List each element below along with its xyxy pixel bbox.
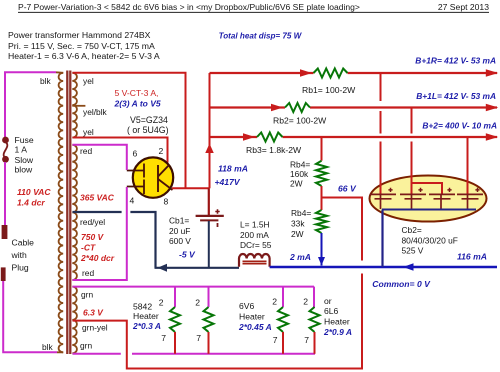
- resistor Rb4 160k: [316, 161, 327, 186]
- svg-text:2: 2: [303, 297, 308, 307]
- wire Rb4b to common: [321, 233, 323, 266]
- svg-text:V5=GZ34: V5=GZ34: [130, 115, 168, 125]
- svg-text:Total heat disp= 75 W: Total heat disp= 75 W: [219, 31, 303, 40]
- svg-text:2*0.3 A: 2*0.3 A: [132, 321, 161, 331]
- svg-text:2*0.45 A: 2*0.45 A: [238, 322, 272, 332]
- svg-text:600 V: 600 V: [169, 236, 191, 246]
- svg-text:6.3 V: 6.3 V: [83, 308, 104, 318]
- svg-text:2(3) A to V5: 2(3) A to V5: [114, 99, 161, 109]
- wire yel top to pin 8 drop: [73, 73, 186, 189]
- tube V5 GZ34 envelope: [133, 157, 173, 197]
- svg-text:Plug: Plug: [12, 263, 29, 273]
- svg-text:Heater: Heater: [133, 311, 159, 321]
- tube cathode K: [158, 165, 173, 193]
- svg-text:Power transformer Hammond 274B: Power transformer Hammond 274BX: [8, 30, 151, 40]
- title underline: [18, 11, 489, 13]
- svg-text:Fuse: Fuse: [15, 135, 34, 145]
- Cb2 common bus: [382, 209, 476, 211]
- svg-text:Slow: Slow: [15, 155, 34, 165]
- svg-text:8: 8: [164, 197, 169, 207]
- svg-text:Cb2=: Cb2=: [402, 225, 422, 235]
- wire Cb1 bottom lead: [208, 221, 210, 268]
- svg-text:B+2= 400 V- 10 mA: B+2= 400 V- 10 mA: [422, 121, 497, 131]
- svg-text:-5 V: -5 V: [179, 250, 196, 260]
- svg-text:5 V-CT-3 A,: 5 V-CT-3 A,: [115, 88, 159, 98]
- svg-text:7: 7: [304, 335, 309, 345]
- common bus: [270, 266, 497, 269]
- wire Cb2 common to bus: [381, 210, 383, 268]
- heater resistor 5842: [174, 287, 176, 307]
- svg-text:blk: blk: [40, 76, 52, 86]
- svg-text:110 VAC: 110 VAC: [17, 187, 51, 197]
- capacitor Cb1: [196, 215, 224, 217]
- svg-text:7: 7: [196, 333, 201, 343]
- Cb2 can ellipse: [370, 176, 487, 222]
- yel/blk center tap stub: [72, 105, 85, 107]
- svg-text:red/yel: red/yel: [80, 217, 105, 227]
- resistor Rb1: [314, 69, 348, 78]
- cap feeds from rails: [380, 73, 382, 194]
- svg-text:P-7 Power-Variation-3 < 5842: P-7 Power-Variation-3 < 5842 dc 6V6 bias…: [18, 2, 360, 12]
- -5V bus: [155, 267, 240, 269]
- svg-text:80/40/30/20 uF: 80/40/30/20 uF: [402, 236, 458, 246]
- svg-text:L= 1.5H: L= 1.5H: [240, 220, 270, 230]
- svg-text:2: 2: [272, 297, 277, 307]
- svg-text:200 mA: 200 mA: [240, 230, 269, 240]
- riser to B+: [209, 73, 211, 188]
- svg-text:yel: yel: [83, 127, 94, 137]
- resistor Rb3: [257, 133, 283, 142]
- svg-text:+417V: +417V: [215, 177, 241, 187]
- svg-text:blk: blk: [42, 342, 54, 352]
- svg-text:Rb3= 1.8k-2W: Rb3= 1.8k-2W: [246, 145, 302, 155]
- wire red/yel CT: [73, 211, 122, 213]
- svg-text:Rb2= 100-2W: Rb2= 100-2W: [273, 116, 327, 126]
- wire pin 8 output: [172, 187, 210, 189]
- svg-text:20 uF: 20 uF: [169, 226, 190, 236]
- svg-text:2: 2: [159, 146, 164, 156]
- svg-text:grn-yel: grn-yel: [82, 323, 108, 333]
- heater resistor 6L6: [313, 287, 315, 308]
- svg-text:750 V: 750 V: [81, 232, 105, 242]
- svg-text:blow: blow: [15, 165, 33, 175]
- svg-text:525 V: 525 V: [402, 246, 424, 256]
- resistor Rb4 33k: [316, 210, 327, 233]
- B+2 rail: [210, 136, 498, 138]
- svg-text:grn: grn: [80, 341, 92, 351]
- svg-text:-CT: -CT: [81, 242, 96, 252]
- cap Cb2 section 3: [429, 193, 455, 195]
- svg-text:Rb1= 100-2W: Rb1= 100-2W: [302, 85, 356, 95]
- svg-text:2: 2: [195, 298, 200, 308]
- svg-text:with: with: [11, 250, 28, 260]
- svg-text:2W: 2W: [291, 229, 304, 239]
- svg-text:Common= 0 V: Common= 0 V: [372, 279, 431, 289]
- transformer 5V secondary winding: [72, 73, 77, 138]
- fuse F1: [4, 142, 8, 158]
- svg-text:Heater: Heater: [324, 316, 350, 326]
- svg-text:2*40 dcr: 2*40 dcr: [80, 253, 115, 263]
- svg-text:grn: grn: [81, 290, 93, 300]
- inductor L1: [239, 254, 270, 267]
- svg-text:365 VAC: 365 VAC: [80, 193, 115, 203]
- cap Cb2 section 2: [400, 193, 426, 195]
- svg-text:6V6: 6V6: [239, 301, 255, 311]
- wire primary top (blk to fuse line): [5, 72, 56, 137]
- wire fuse to plug: [4, 162, 6, 226]
- wire red tap 2 to pin 4: [73, 187, 127, 280]
- svg-text:5842: 5842: [133, 302, 152, 312]
- svg-text:yel/blk: yel/blk: [83, 107, 108, 117]
- cap Cb2 section 1: [370, 193, 396, 195]
- wire yel lower to pin 2: [73, 138, 168, 163]
- svg-text:1.4 dcr: 1.4 dcr: [17, 197, 45, 207]
- svg-text:118 mA: 118 mA: [218, 164, 248, 174]
- svg-text:2 mA: 2 mA: [289, 252, 311, 262]
- svg-text:2*0.9 A: 2*0.9 A: [323, 327, 352, 337]
- B+1L rail: [210, 106, 498, 108]
- svg-text:2W: 2W: [290, 178, 303, 188]
- svg-text:red: red: [80, 146, 92, 156]
- B+1R rail: [210, 72, 498, 74]
- svg-text:7: 7: [273, 335, 278, 345]
- svg-text:Rb4=: Rb4=: [290, 160, 310, 170]
- svg-text:yel: yel: [83, 76, 94, 86]
- svg-text:DCr= 55: DCr= 55: [240, 240, 272, 250]
- svg-text:Cable: Cable: [12, 238, 35, 248]
- svg-text:6: 6: [133, 149, 138, 159]
- plug prong 1: [2, 225, 8, 239]
- svg-text:Rb4=: Rb4=: [291, 208, 311, 218]
- svg-text:B+1R= 412 V- 53 mA: B+1R= 412 V- 53 mA: [415, 56, 496, 66]
- svg-text:Cb1=: Cb1=: [169, 216, 189, 226]
- svg-text:or: or: [324, 296, 332, 306]
- wire plug to primary bottom: [3, 281, 57, 352]
- svg-text:33k: 33k: [291, 219, 305, 229]
- plug prong 2: [1, 267, 6, 281]
- svg-text:6L6: 6L6: [324, 306, 339, 316]
- svg-text:red: red: [82, 268, 94, 278]
- resistor Rb2: [285, 103, 310, 112]
- svg-text:4: 4: [130, 196, 135, 206]
- heater top bus: [73, 286, 315, 288]
- node 66V: [321, 186, 323, 210]
- transformer primary winding: [59, 73, 64, 353]
- wire red tap to pin 6: [73, 145, 127, 170]
- svg-text:( or 5U4G): ( or 5U4G): [127, 125, 169, 135]
- svg-text:Heater-1 = 6.3 V-6 A, heater-2: Heater-1 = 6.3 V-6 A, heater-2= 5 V-3 A: [8, 51, 160, 61]
- svg-text:Heater: Heater: [239, 312, 265, 322]
- heater resistor 6V6: [282, 287, 284, 307]
- cap Cb2 section 4: [457, 193, 483, 195]
- tube anode plate pin 6: [127, 164, 144, 178]
- svg-text:2: 2: [159, 298, 164, 308]
- transformer 6.3V secondary winding: [72, 287, 77, 354]
- heater bottom bus: [73, 353, 316, 355]
- svg-text:66 V: 66 V: [338, 184, 357, 194]
- svg-text:Pri. = 115 V, Sec. = 750 V-CT,: Pri. = 115 V, Sec. = 750 V-CT, 175 mA: [8, 41, 155, 51]
- transformer HV secondary winding: [72, 145, 77, 280]
- svg-text:B+1L= 412 V- 53 mA: B+1L= 412 V- 53 mA: [416, 91, 496, 101]
- wire 66V to heater CT: [73, 198, 363, 369]
- svg-text:1 A: 1 A: [15, 145, 28, 155]
- svg-text:27 Sept 2013: 27 Sept 2013: [438, 2, 489, 12]
- svg-text:7: 7: [161, 333, 166, 343]
- transformer core: [66, 71, 68, 355]
- wire B+2 to Rb4a: [321, 137, 323, 161]
- svg-text:116 mA: 116 mA: [457, 252, 487, 262]
- tube anode plate pin 4: [127, 180, 144, 195]
- wire Cb1 top lead: [208, 188, 210, 215]
- heater resistor R2: [208, 287, 210, 307]
